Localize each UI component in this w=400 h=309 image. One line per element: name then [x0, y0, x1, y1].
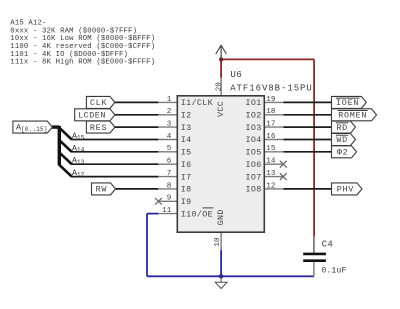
svg-text:8: 8: [167, 182, 172, 190]
svg-text:0.1uF: 0.1uF: [321, 267, 346, 276]
svg-text:C4: C4: [322, 239, 333, 249]
svg-text:ATF16V8B-15PU: ATF16V8B-15PU: [230, 84, 313, 94]
svg-text:18: 18: [266, 108, 276, 116]
svg-text:7: 7: [167, 170, 172, 178]
svg-text:4: 4: [167, 133, 172, 141]
svg-text:I4: I4: [181, 135, 192, 145]
svg-text:5: 5: [167, 145, 172, 153]
svg-text:ROMEN: ROMEN: [338, 111, 367, 121]
svg-text:IO2: IO2: [245, 111, 261, 121]
svg-text:I3: I3: [181, 123, 192, 133]
svg-text:2: 2: [167, 108, 172, 116]
svg-text:16: 16: [266, 133, 276, 141]
svg-text:1100 - 4K reserved ($C000-$CFF: 1100 - 4K reserved ($C000-$CFFF): [10, 43, 155, 51]
svg-text:A15 A12-: A15 A12-: [10, 20, 46, 28]
svg-text:14: 14: [266, 158, 276, 166]
svg-text:IO7: IO7: [245, 172, 261, 182]
svg-text:I2: I2: [181, 111, 192, 121]
svg-text:I5: I5: [181, 148, 192, 158]
svg-text:IOEN: IOEN: [336, 98, 359, 108]
svg-text:20: 20: [215, 82, 223, 92]
svg-text:11: 11: [162, 207, 172, 215]
svg-text:3: 3: [167, 121, 172, 129]
svg-text:17: 17: [266, 121, 275, 129]
svg-text:12: 12: [266, 182, 276, 190]
svg-text:PHV: PHV: [337, 185, 354, 195]
svg-text:RES: RES: [90, 123, 107, 133]
svg-text:IO3: IO3: [245, 123, 261, 133]
svg-text:Φ2: Φ2: [337, 148, 349, 158]
svg-text:111x - 8K High ROM ($E000-$FFF: 111x - 8K High ROM ($E000-$FFFF): [10, 59, 155, 67]
svg-text:19: 19: [266, 96, 276, 104]
svg-text:I8: I8: [181, 185, 192, 195]
svg-text:WD: WD: [336, 135, 348, 145]
svg-text:6: 6: [167, 158, 172, 166]
svg-text:IO1: IO1: [245, 98, 261, 108]
svg-text:A13: A13: [72, 157, 85, 166]
svg-text:13: 13: [266, 170, 276, 178]
svg-text:A15: A15: [72, 132, 85, 141]
svg-text:IO5: IO5: [245, 148, 261, 158]
svg-text:A14: A14: [72, 144, 85, 153]
svg-text:10: 10: [214, 237, 222, 247]
svg-text:RD: RD: [336, 123, 348, 133]
svg-text:0xxx - 32K RAM ($0000-$7FFF): 0xxx - 32K RAM ($0000-$7FFF): [10, 27, 137, 35]
svg-text:IO4: IO4: [245, 135, 261, 145]
svg-text:1: 1: [167, 96, 172, 104]
svg-text:I10/OE: I10/OE: [181, 209, 213, 219]
svg-text:1101 - 4K IO ($D000-$DFFF): 1101 - 4K IO ($D000-$DFFF): [10, 51, 128, 59]
svg-text:15: 15: [266, 145, 276, 153]
svg-text:I1/CLK: I1/CLK: [181, 98, 214, 108]
svg-text:I6: I6: [181, 160, 192, 170]
svg-text:LCDEN: LCDEN: [78, 111, 106, 121]
svg-text:I9: I9: [181, 197, 192, 207]
svg-text:9: 9: [167, 195, 172, 203]
svg-text:U6: U6: [230, 69, 242, 80]
svg-text:RW: RW: [96, 185, 108, 195]
svg-text:IO6: IO6: [245, 160, 261, 170]
svg-text:VCC: VCC: [216, 101, 226, 117]
svg-text:IO8: IO8: [245, 185, 261, 195]
svg-text:I7: I7: [181, 172, 192, 182]
svg-text:GND: GND: [216, 209, 226, 225]
svg-text:CLK: CLK: [90, 98, 108, 108]
svg-text:10xx - 16K Low ROM ($8000-$BFF: 10xx - 16K Low ROM ($8000-$BFFF): [10, 35, 155, 43]
